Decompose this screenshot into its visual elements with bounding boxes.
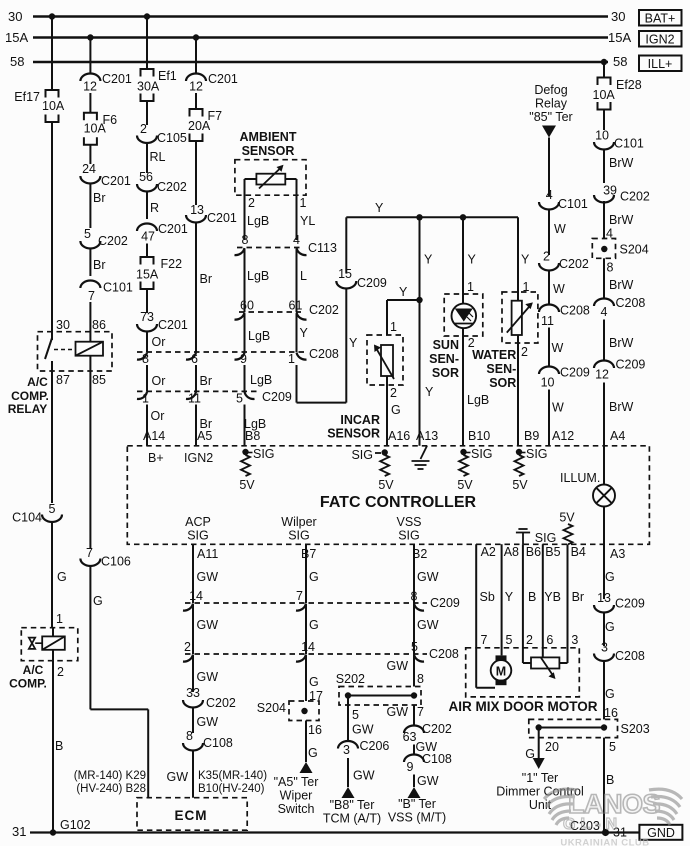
svg-text:R: R (150, 201, 159, 215)
svg-text:2: 2 (57, 665, 64, 679)
wire bus30 down to fuse Ef1 (146, 17, 148, 70)
svg-text:C208: C208 (616, 296, 646, 310)
wire 61 down, label Y (296, 314, 298, 353)
wire, label R (146, 192, 148, 220)
fuse F6 10A (84, 113, 97, 121)
wire water pin 2 to FATC pin B9 (517, 335, 519, 446)
svg-text:C101: C101 (614, 137, 644, 151)
bus 15A (IGN2) rail (33, 36, 608, 38)
svg-text:ILL+: ILL+ (648, 57, 673, 71)
svg-text:C202: C202 (309, 303, 339, 317)
svg-text:YB: YB (544, 590, 561, 604)
A/C COMP compressor clutch box (21, 628, 78, 661)
wire incar pin 2 to FATC pin A16, label G (386, 376, 388, 446)
svg-text:S204: S204 (257, 701, 286, 715)
svg-text:Or: Or (152, 374, 166, 388)
svg-text:Y: Y (399, 285, 408, 299)
svg-text:C108: C108 (203, 736, 233, 750)
svg-text:A3: A3 (610, 547, 625, 561)
svg-text:Or: Or (151, 409, 165, 423)
ambient wires to pins (245, 178, 257, 180)
svg-text:FATC CONTROLLER: FATC CONTROLLER (320, 494, 477, 511)
svg-text:Y: Y (521, 253, 530, 267)
svg-text:12: 12 (83, 80, 97, 94)
svg-text:Ef28: Ef28 (616, 78, 642, 92)
svg-text:8: 8 (417, 672, 424, 686)
wire, label Br (89, 184, 91, 229)
wire C104 to A/C COMP pin 1, label G (51, 522, 53, 628)
LANOS club watermark (544, 789, 682, 846)
wire Y bus to sun sensor pin 1 (462, 217, 464, 303)
svg-text:S202: S202 (336, 672, 365, 686)
ECM box (137, 798, 247, 831)
svg-text:5: 5 (49, 502, 56, 516)
svg-text:GW: GW (417, 618, 439, 632)
row connector pin 5 of C209 (245, 392, 255, 399)
svg-text:Y: Y (505, 590, 514, 604)
svg-text:C202: C202 (422, 722, 452, 736)
svg-text:SEN-: SEN- (486, 362, 516, 376)
svg-text:7: 7 (88, 289, 95, 303)
splice S203 internal wire (539, 727, 604, 729)
svg-text:5: 5 (84, 227, 91, 241)
svg-text:G: G (309, 570, 319, 584)
svg-text:10: 10 (595, 129, 609, 143)
connector 47 C201 (137, 224, 157, 231)
ambient sensor thermistor (256, 174, 285, 185)
svg-text:C209: C209 (616, 358, 646, 372)
relay link dashed (54, 349, 74, 351)
FATC CONTROLLER box (127, 446, 649, 545)
connector row C209 (bottom) (185, 602, 427, 604)
svg-text:5: 5 (609, 740, 616, 754)
svg-text:Y: Y (425, 385, 434, 399)
svg-text:C208: C208 (615, 649, 645, 663)
junction bus30 / Ef1 (144, 13, 150, 19)
relay switch contact 30-87 (45, 338, 52, 359)
svg-text:W: W (554, 222, 566, 236)
svg-text:16: 16 (308, 723, 322, 737)
svg-text:A/C: A/C (27, 375, 48, 389)
wire, label GW, to TCM terminal (347, 758, 349, 787)
svg-text:ILLUM.: ILLUM. (560, 471, 600, 485)
svg-text:C206: C206 (360, 739, 390, 753)
svg-text:B: B (606, 773, 614, 787)
svg-text:7: 7 (296, 589, 303, 603)
svg-text:C108: C108 (422, 752, 452, 766)
svg-text:B10: B10 (468, 429, 490, 443)
connector 3 C206 (338, 741, 358, 749)
fuse Ef1 30A (141, 69, 154, 77)
svg-text:Defog: Defog (534, 83, 567, 97)
svg-text:1: 1 (288, 352, 295, 366)
svg-text:ACP: ACP (185, 515, 211, 529)
wire Y junction down to node (419, 217, 421, 300)
wire to relay terminal 86 (89, 302, 91, 342)
wire Ef17 to relay terminal 30 (51, 122, 53, 340)
svg-text:SOR: SOR (489, 376, 516, 390)
svg-text:C209: C209 (262, 390, 292, 404)
wire bus15A down to connector 12 C201 (right) (195, 38, 197, 74)
svg-text:13: 13 (597, 591, 611, 605)
svg-text:8: 8 (142, 352, 149, 366)
wire pin4 down, label L (296, 249, 298, 312)
wire 9 down, label LgB (244, 365, 246, 391)
wire FATC A2 to motor pin 7, label Sb (475, 544, 477, 688)
wire down, label G (89, 566, 91, 709)
connector 10 C209 (539, 367, 559, 375)
svg-text:SIG: SIG (288, 529, 310, 543)
svg-text:C201: C201 (158, 222, 188, 236)
svg-text:AMBIENT: AMBIENT (240, 130, 297, 144)
wire S202 right branch, labels GW 7 (413, 705, 415, 726)
svg-text:"B" Ter: "B" Ter (398, 797, 436, 811)
svg-text:Y: Y (375, 201, 384, 215)
svg-text:VSS: VSS (396, 515, 421, 529)
wire to fuse F7 (195, 93, 197, 109)
svg-text:5: 5 (411, 640, 418, 654)
svg-text:Or: Or (152, 335, 166, 349)
svg-text:Wiper: Wiper (280, 789, 313, 803)
svg-text:15A: 15A (608, 30, 631, 45)
svg-text:Br: Br (200, 374, 213, 388)
svg-text:GW: GW (352, 723, 374, 737)
svg-text:BrW: BrW (609, 156, 634, 170)
svg-text:5V: 5V (559, 511, 575, 525)
wire, label GW (192, 655, 194, 692)
svg-text:G: G (605, 570, 615, 584)
svg-text:LgB: LgB (250, 373, 272, 387)
wire, label G (305, 604, 307, 654)
svg-text:COMP.: COMP. (9, 677, 47, 691)
svg-text:4: 4 (293, 233, 300, 247)
connector row C208 dashed line (137, 351, 305, 353)
svg-text:C209: C209 (430, 596, 460, 610)
svg-text:Br: Br (572, 590, 585, 604)
svg-text:8: 8 (607, 261, 614, 275)
svg-text:C202: C202 (98, 234, 128, 248)
svg-text:A2: A2 (481, 545, 496, 559)
wire to FATC pin A5, label Br (195, 405, 197, 446)
wire to FATC pin A4, label BrW (603, 383, 605, 446)
wire relay 87 down to C104 (51, 361, 53, 503)
splice S202 internal wire (348, 695, 414, 697)
pin B10 SIG with 5V pull-up (460, 449, 466, 455)
junction bus15A / F7 branch (193, 34, 199, 40)
svg-text:60: 60 (240, 299, 254, 313)
svg-text:B8: B8 (245, 429, 260, 443)
svg-text:M: M (496, 665, 506, 679)
terminal box BAT+ (639, 10, 682, 26)
svg-text:SIG: SIG (526, 447, 548, 461)
svg-text:7: 7 (417, 705, 424, 719)
connector 12 C209 (594, 361, 614, 368)
svg-text:1: 1 (467, 280, 474, 294)
svg-text:UKRAINIAN CLUB: UKRAINIAN CLUB (560, 838, 649, 846)
svg-text:8: 8 (242, 233, 249, 247)
svg-text:RELAY: RELAY (8, 402, 48, 416)
svg-text:A12: A12 (552, 429, 574, 443)
svg-text:B5: B5 (545, 545, 560, 559)
svg-text:GW: GW (353, 769, 375, 783)
wire F7 to connector 13 C201 (195, 141, 197, 205)
svg-text:SIG: SIG (471, 447, 493, 461)
wire, labels G 16 (603, 661, 605, 719)
connector 12 C201 (80, 74, 100, 82)
svg-text:SIG: SIG (351, 448, 373, 462)
svg-text:L: L (300, 269, 307, 283)
wire to FATC pin B8, label LgB (244, 405, 246, 446)
svg-text:C208: C208 (429, 647, 459, 661)
row connector pin 8 of C208 (137, 353, 147, 360)
svg-text:Y: Y (300, 326, 309, 340)
wire FATC B7 down, label G (305, 544, 307, 603)
junction bus30 / Ef17 (49, 13, 55, 19)
svg-text:"A5" Ter: "A5" Ter (274, 775, 319, 789)
svg-text:C209: C209 (357, 276, 387, 290)
row connector pin 1 of C208 (right end) (297, 353, 307, 360)
svg-text:Sb: Sb (480, 590, 495, 604)
svg-text:B: B (528, 590, 536, 604)
terminal arrow B VSS (408, 787, 421, 798)
svg-text:RL: RL (150, 150, 166, 164)
svg-text:2: 2 (184, 640, 191, 654)
svg-text:Y: Y (424, 253, 433, 267)
svg-text:1: 1 (142, 392, 149, 406)
svg-text:3: 3 (343, 743, 350, 757)
svg-text:73: 73 (140, 310, 154, 324)
svg-text:LANOS: LANOS (568, 789, 660, 819)
svg-text:47: 47 (141, 230, 155, 244)
svg-text:YL: YL (300, 214, 315, 228)
wire, label W (548, 210, 550, 256)
wire pin1 C208 jog to 15 C209 (296, 365, 298, 403)
svg-text:LgB: LgB (247, 269, 269, 283)
svg-text:2: 2 (526, 633, 533, 647)
svg-text:GW: GW (197, 715, 219, 729)
wire, label G 17 (305, 655, 307, 701)
svg-text:Switch: Switch (278, 802, 315, 816)
svg-text:LgB: LgB (247, 214, 269, 228)
wire, label GW (413, 745, 415, 755)
relay A/C COMP. RELAY box (38, 332, 113, 371)
svg-text:B9: B9 (524, 429, 539, 443)
wire S203 to bus 31, labels 5 B (603, 738, 605, 833)
svg-text:58: 58 (10, 54, 24, 69)
svg-text:33: 33 (186, 686, 200, 700)
svg-text:1: 1 (300, 196, 307, 210)
svg-text:W: W (553, 282, 565, 296)
svg-text:C208: C208 (560, 304, 590, 318)
svg-text:16: 16 (604, 706, 618, 720)
svg-text:GW: GW (197, 618, 219, 632)
connector 9 C108 (404, 755, 424, 762)
svg-text:Ef1: Ef1 (158, 69, 177, 83)
relay coil 86-85 (76, 342, 104, 356)
AIR MIX DOOR MOTOR box (466, 648, 580, 697)
svg-text:W: W (552, 401, 564, 415)
svg-text:11: 11 (541, 314, 554, 328)
wire to FATC pin A12, label W (548, 390, 550, 446)
svg-text:C208: C208 (309, 347, 339, 361)
svg-text:C104: C104 (12, 511, 42, 525)
wire, label 16 G (305, 721, 307, 763)
svg-text:S204: S204 (620, 243, 649, 257)
row connector pin 11 of C209 (186, 392, 196, 399)
wire FATC B6 to pot pin 2, label B (522, 544, 524, 663)
svg-text:"85" Ter: "85" Ter (529, 110, 572, 124)
wire, label W (548, 328, 550, 367)
incar sensor thermistor (381, 345, 393, 376)
wire FATC B2 down, label GW (413, 544, 415, 603)
svg-text:14: 14 (189, 589, 203, 603)
svg-text:8: 8 (411, 590, 418, 604)
svg-text:20A: 20A (188, 119, 211, 133)
svg-text:30: 30 (56, 318, 70, 332)
svg-text:A8: A8 (504, 545, 519, 559)
wire, label Br (195, 223, 197, 353)
svg-text:30A: 30A (137, 80, 160, 94)
svg-text:15A: 15A (5, 30, 28, 45)
connector row C202 (60/61) (239, 311, 301, 313)
terminal box GND (639, 825, 682, 840)
wire, label G (603, 613, 605, 647)
svg-text:2: 2 (543, 250, 550, 264)
wire bus15A down to connector 12 C201 (89, 38, 91, 74)
svg-text:G: G (605, 620, 615, 634)
fuse F22 15A (141, 257, 154, 265)
connector 12 C201 (right) (186, 74, 206, 82)
svg-text:10A: 10A (42, 99, 65, 113)
svg-text:SIG: SIG (398, 529, 420, 543)
svg-text:58: 58 (613, 54, 627, 69)
svg-text:7: 7 (481, 633, 488, 647)
pin B9 SIG with 5V pull-up (516, 449, 522, 455)
svg-text:K35(MR-140): K35(MR-140) (198, 770, 267, 782)
svg-text:5: 5 (352, 708, 359, 722)
svg-text:15: 15 (338, 267, 352, 281)
svg-text:C202: C202 (206, 696, 236, 710)
terminal arrow A5 wiper switch (300, 762, 313, 773)
svg-text:63: 63 (403, 730, 417, 744)
svg-text:B7: B7 (301, 547, 316, 561)
A/C COMP valve symbol (29, 638, 42, 649)
wire, label Or (146, 365, 148, 391)
svg-text:C201: C201 (208, 72, 238, 86)
connector row C208 (bottom) (185, 653, 427, 655)
wire FATC B4 to pot pin 3, label Br (567, 544, 569, 663)
svg-text:GW: GW (417, 570, 439, 584)
svg-text:C202: C202 (559, 257, 589, 271)
svg-text:6: 6 (546, 633, 553, 647)
junction Y bus / sun sensor branch (460, 214, 466, 220)
svg-text:A4: A4 (610, 429, 625, 443)
defog relay terminal arrow (542, 126, 556, 138)
svg-text:5: 5 (236, 392, 243, 406)
svg-text:"1" Ter: "1" Ter (522, 771, 558, 785)
svg-text:Wilper: Wilper (281, 515, 316, 529)
svg-text:C106: C106 (101, 555, 131, 569)
svg-text:20: 20 (545, 740, 559, 754)
wire Ef1 to connector 2 C105 (146, 101, 148, 125)
svg-text:BrW: BrW (609, 278, 634, 292)
svg-text:5V: 5V (378, 478, 394, 492)
svg-text:Relay: Relay (535, 97, 568, 111)
svg-text:2: 2 (140, 122, 147, 136)
svg-text:VSS (M/T): VSS (M/T) (388, 811, 446, 825)
svg-text:GW: GW (197, 670, 219, 684)
svg-text:10: 10 (541, 376, 555, 390)
svg-text:9: 9 (407, 760, 414, 774)
wire relay 85 down to C106 (89, 356, 91, 549)
svg-text:C201: C201 (102, 72, 132, 86)
svg-text:GW: GW (166, 770, 188, 784)
svg-text:A16: A16 (388, 429, 410, 443)
svg-text:GW: GW (197, 570, 219, 584)
svg-text:GW: GW (386, 659, 408, 673)
svg-text:LgB: LgB (248, 329, 270, 343)
svg-text:INCAR: INCAR (340, 413, 380, 427)
svg-text:C113: C113 (308, 241, 337, 255)
wire 60 down, label LgB (244, 314, 246, 353)
svg-text:15A: 15A (136, 268, 159, 282)
SUN SENSOR box (444, 294, 483, 336)
svg-text:BrW: BrW (609, 213, 634, 227)
wire to fuse F6 (89, 93, 91, 113)
svg-text:IGN2: IGN2 (645, 33, 674, 47)
svg-text:SEN-: SEN- (429, 352, 459, 366)
svg-text:G: G (93, 594, 103, 608)
air mix motor M (496, 655, 507, 660)
wire to S202, labels GW 8 (413, 655, 415, 687)
svg-text:B4: B4 (571, 545, 586, 559)
svg-text:A14: A14 (143, 429, 165, 443)
wire jog to ECM (90, 708, 148, 710)
svg-text:ECM: ECM (175, 808, 208, 823)
svg-text:BrW: BrW (609, 400, 634, 414)
svg-text:31: 31 (12, 824, 26, 839)
svg-text:12: 12 (595, 368, 609, 382)
svg-text:S203: S203 (621, 722, 650, 736)
svg-text:G102: G102 (60, 818, 91, 832)
svg-text:61: 61 (289, 299, 303, 313)
svg-text:C201: C201 (158, 318, 188, 332)
svg-text:24: 24 (82, 162, 96, 176)
svg-text:SENSOR: SENSOR (327, 427, 380, 441)
svg-text:Y: Y (468, 253, 477, 267)
sun sensor photodiode (452, 304, 477, 329)
svg-text:SIG: SIG (535, 531, 557, 545)
svg-text:BrW: BrW (609, 336, 634, 350)
row connector pin 9 of C208 (235, 353, 245, 360)
svg-text:G: G (57, 570, 67, 584)
wire bus30 to fuse Ef17 (51, 17, 53, 91)
svg-text:6: 6 (191, 352, 198, 366)
wire FATC B5 to pot pin 6, label YB (542, 544, 544, 657)
svg-text:B6: B6 (526, 545, 541, 559)
svg-text:1: 1 (390, 320, 397, 334)
svg-text:2: 2 (390, 386, 397, 400)
svg-text:13: 13 (190, 203, 204, 217)
svg-text:56: 56 (139, 170, 153, 184)
node incar feed (416, 297, 422, 303)
INCAR SENSOR box (367, 335, 403, 385)
svg-text:C101: C101 (103, 281, 133, 295)
air mix position pot (531, 657, 559, 668)
svg-text:GW: GW (417, 774, 439, 788)
svg-text:8: 8 (186, 729, 193, 743)
S203 branch to dimmer, labels 20 G (538, 728, 540, 759)
